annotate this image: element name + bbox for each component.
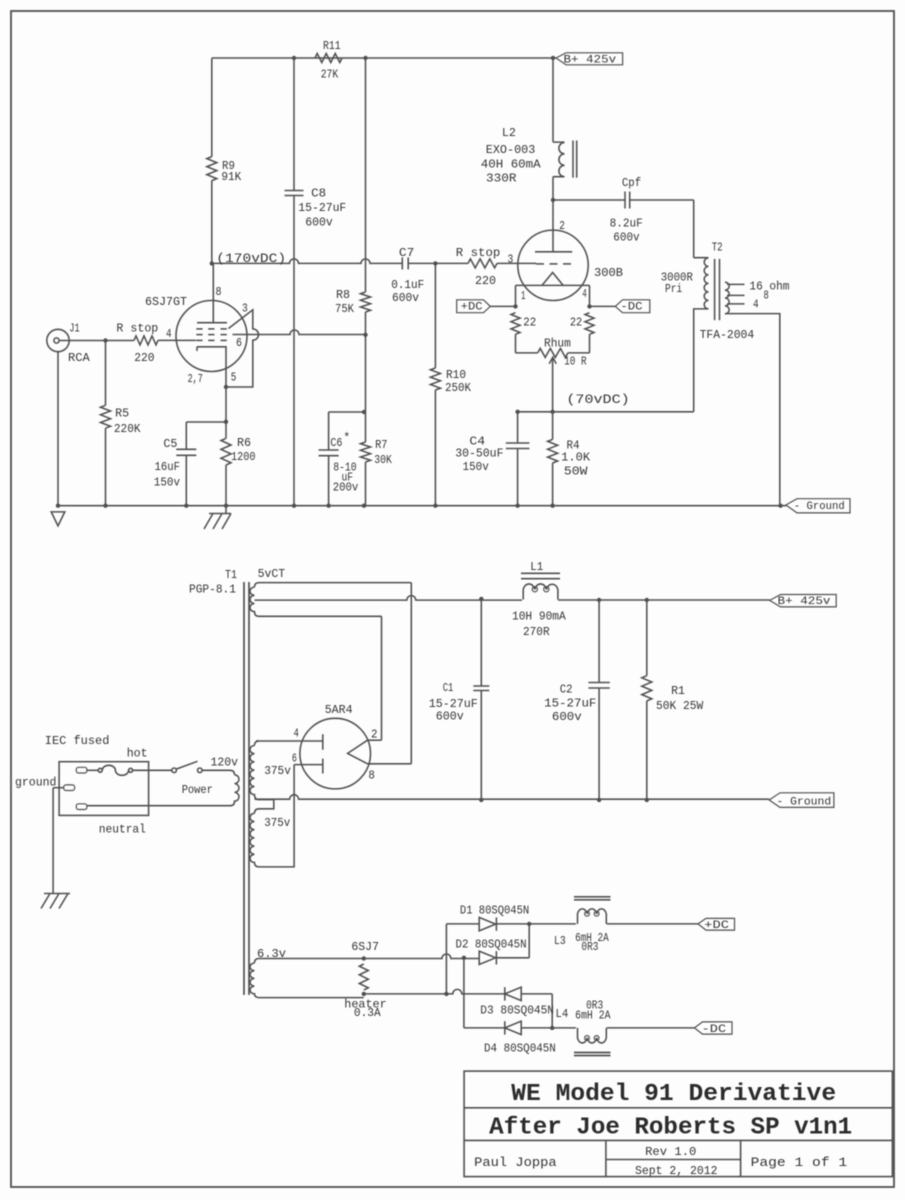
svg-text:8: 8 [764, 288, 769, 302]
svg-text:neutral: neutral [99, 823, 146, 837]
svg-text:220: 220 [134, 351, 154, 365]
svg-text:IEC fused: IEC fused [45, 734, 110, 748]
svg-text:D1 80SQ045N: D1 80SQ045N [460, 904, 529, 918]
svg-text:4: 4 [294, 727, 299, 741]
svg-text:16uF: 16uF [155, 460, 181, 474]
svg-text:375v: 375v [264, 764, 291, 778]
svg-text:6: 6 [292, 752, 297, 766]
svg-text:2: 2 [371, 728, 378, 742]
svg-text:270R: 270R [523, 625, 550, 639]
svg-text:R1: R1 [671, 684, 685, 698]
svg-text:T2: T2 [712, 240, 723, 254]
svg-text:Cpf: Cpf [622, 176, 641, 190]
svg-text:150v: 150v [154, 475, 180, 489]
svg-text:1200: 1200 [231, 450, 256, 464]
svg-text:3: 3 [508, 252, 514, 266]
svg-text:600v: 600v [552, 710, 582, 724]
svg-text:15-27uF: 15-27uF [544, 696, 596, 710]
svg-text:D2 80SQ045N: D2 80SQ045N [456, 938, 527, 952]
svg-text:(70vDC): (70vDC) [566, 392, 629, 407]
svg-text:Page 1 of 1: Page 1 of 1 [751, 1155, 848, 1170]
svg-text:-DC: -DC [702, 1024, 727, 1036]
svg-text:*: * [343, 431, 350, 445]
svg-text:0.3A: 0.3A [354, 1006, 382, 1020]
svg-text:2,7: 2,7 [188, 372, 203, 386]
svg-text:375v: 375v [264, 816, 290, 830]
svg-text:Rev 1.0: Rev 1.0 [645, 1146, 696, 1159]
svg-text:C7: C7 [399, 246, 414, 260]
svg-text:40H 60mA: 40H 60mA [481, 158, 542, 172]
svg-text:+DC: +DC [704, 920, 729, 932]
svg-text:-DC: -DC [620, 302, 643, 314]
svg-text:300B: 300B [594, 266, 623, 280]
svg-text:R6: R6 [237, 436, 251, 450]
svg-text:6SJ7GT: 6SJ7GT [145, 295, 187, 309]
svg-text:J1: J1 [69, 322, 79, 336]
svg-text:R stop: R stop [116, 322, 158, 336]
svg-text:22: 22 [523, 316, 536, 330]
svg-text:1.0K: 1.0K [561, 450, 591, 464]
svg-text:C2: C2 [560, 683, 573, 697]
svg-text:600v: 600v [305, 216, 333, 230]
svg-text:91K: 91K [221, 170, 242, 184]
svg-text:- Ground: - Ground [794, 501, 845, 513]
svg-text:+DC: +DC [461, 302, 483, 314]
svg-text:30K: 30K [374, 453, 392, 467]
svg-text:WE Model 91 Derivative: WE Model 91 Derivative [511, 1081, 836, 1108]
svg-text:8.2uF: 8.2uF [610, 216, 643, 230]
svg-text:8: 8 [216, 285, 222, 299]
svg-text:RCA: RCA [68, 351, 90, 365]
svg-text:B+ 425v: B+ 425v [778, 596, 832, 608]
svg-text:4: 4 [166, 327, 172, 341]
svg-text:R stop: R stop [456, 246, 501, 260]
svg-text:Power: Power [182, 783, 213, 797]
svg-text:D3 80SQ045N: D3 80SQ045N [480, 1003, 554, 1017]
svg-text:250K: 250K [445, 381, 472, 395]
svg-text:600v: 600v [436, 710, 464, 724]
svg-text:5AR4: 5AR4 [325, 703, 353, 717]
svg-text:L1: L1 [530, 560, 543, 574]
svg-text:600v: 600v [392, 291, 419, 305]
svg-text:6SJ7: 6SJ7 [351, 940, 379, 954]
svg-text:hot: hot [127, 746, 148, 760]
svg-text:L2: L2 [502, 126, 516, 140]
svg-text:L4: L4 [556, 1007, 569, 1021]
svg-text:0.1uF: 0.1uF [391, 278, 424, 292]
svg-text:6: 6 [236, 336, 242, 350]
svg-text:Pri: Pri [665, 282, 682, 296]
svg-text:200v: 200v [333, 481, 359, 495]
svg-text:C8: C8 [311, 187, 326, 201]
svg-text:30-50uF: 30-50uF [455, 447, 503, 461]
svg-text:R11: R11 [323, 39, 341, 53]
svg-text:R7: R7 [375, 438, 387, 452]
svg-text:TFA-2004: TFA-2004 [700, 328, 755, 342]
svg-text:10 R: 10 R [564, 354, 587, 368]
svg-text:C6: C6 [330, 436, 342, 450]
svg-text:600v: 600v [613, 231, 639, 245]
svg-text:EXO-003: EXO-003 [486, 143, 536, 157]
svg-text:120v: 120v [211, 756, 239, 770]
svg-text:50W: 50W [564, 465, 588, 479]
svg-text:2: 2 [559, 219, 565, 233]
svg-text:Rhum: Rhum [544, 337, 571, 351]
svg-text:4: 4 [753, 298, 759, 312]
svg-text:(170vDC): (170vDC) [216, 251, 286, 266]
svg-text:22: 22 [570, 316, 582, 330]
svg-text:5vCT: 5vCT [258, 567, 286, 581]
svg-text:50K 25W: 50K 25W [656, 699, 704, 713]
svg-text:220: 220 [475, 274, 496, 288]
svg-text:10H 90mA: 10H 90mA [512, 609, 566, 623]
svg-text:C1: C1 [443, 681, 454, 695]
svg-text:R8: R8 [336, 288, 350, 302]
svg-text:330R: 330R [486, 172, 517, 186]
svg-text:Sept 2, 2012: Sept 2, 2012 [635, 1165, 718, 1178]
svg-text:15-27uF: 15-27uF [298, 201, 346, 215]
svg-text:B+ 425v: B+ 425v [564, 55, 617, 67]
svg-text:R10: R10 [446, 368, 466, 382]
svg-text:27K: 27K [321, 67, 339, 81]
svg-text:5: 5 [231, 370, 237, 384]
svg-text:T1: T1 [225, 568, 237, 582]
svg-text:ground: ground [15, 776, 56, 790]
svg-text:0R3: 0R3 [581, 940, 598, 954]
svg-text:6mH 2A: 6mH 2A [575, 1008, 611, 1022]
svg-text:1: 1 [521, 289, 526, 303]
svg-text:L3: L3 [554, 934, 566, 948]
svg-text:C5: C5 [163, 437, 177, 451]
svg-text:150v: 150v [463, 460, 489, 474]
svg-text:Paul Joppa: Paul Joppa [474, 1155, 557, 1170]
svg-text:220K: 220K [114, 422, 141, 436]
svg-text:After Joe Roberts SP v1n1: After Joe Roberts SP v1n1 [489, 1114, 852, 1141]
svg-text:16 ohm: 16 ohm [749, 279, 789, 293]
svg-text:3: 3 [242, 302, 248, 316]
svg-text:- Ground: - Ground [777, 796, 832, 808]
svg-text:R5: R5 [115, 407, 129, 421]
svg-text:8: 8 [368, 769, 375, 783]
svg-text:75K: 75K [335, 302, 355, 316]
svg-text:PGP-8.1: PGP-8.1 [189, 583, 236, 597]
svg-text:D4 80SQ045N: D4 80SQ045N [484, 1042, 556, 1056]
svg-text:4: 4 [582, 287, 587, 301]
